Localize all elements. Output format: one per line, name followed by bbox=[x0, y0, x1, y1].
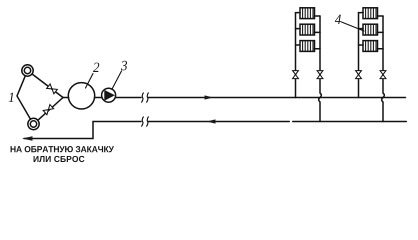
node J wire into degasser bbox=[63, 97, 69, 99]
wellhead W2 (bottom double circle) bbox=[28, 118, 39, 129]
pump P3 bbox=[102, 88, 116, 102]
leader line label 4 bbox=[342, 22, 365, 31]
return pipe main run bbox=[148, 121, 406, 123]
radiator A2 bbox=[296, 24, 321, 35]
return pipe segment left bbox=[93, 121, 141, 123]
valve V2 (on lower diagonal) bbox=[43, 105, 53, 115]
radiator A1 bbox=[296, 8, 321, 19]
arrow to injection (left) bbox=[22, 136, 33, 140]
label 3 bbox=[121, 61, 127, 71]
label 4 bbox=[335, 15, 341, 24]
pipe break marks supply bbox=[142, 93, 149, 102]
radiator group B left riser bbox=[358, 13, 360, 98]
leader line label 3 bbox=[112, 71, 122, 90]
leader line label 1 bbox=[17, 76, 31, 119]
leader line label 2 bbox=[86, 74, 94, 89]
return drop pipe to injection bbox=[24, 122, 93, 139]
wire degasser to pump bbox=[95, 97, 103, 99]
valve VB1 (left riser B) bbox=[356, 71, 362, 79]
radiator group A right riser with crossing jog bbox=[319, 16, 322, 122]
flow arrow supply (right) bbox=[205, 95, 214, 99]
valve VA1 (left riser A) bbox=[293, 71, 299, 79]
wire from W1 to node J bbox=[32, 74, 63, 98]
radiator B2 bbox=[359, 24, 384, 35]
wellhead W1 (top double circle) bbox=[22, 65, 33, 76]
valve V1 (on upper diagonal) bbox=[47, 84, 58, 94]
supply pipe segment pump to break bbox=[115, 97, 141, 99]
valve VB2 (right riser B) bbox=[380, 71, 386, 79]
radiator B3 bbox=[359, 41, 384, 52]
radiator A3 bbox=[296, 41, 321, 52]
pipe break marks return bbox=[142, 117, 149, 126]
label 2 bbox=[93, 63, 99, 72]
radiator group A left riser bbox=[295, 13, 297, 98]
valve VA2 (right riser A) bbox=[317, 71, 323, 79]
radiator B1 bbox=[359, 8, 384, 19]
supply pipe main run bbox=[148, 97, 405, 99]
degasser U2 (big circle) bbox=[68, 83, 94, 109]
flow arrow return (left) bbox=[207, 119, 216, 123]
radiator group B right riser with crossing jog bbox=[382, 16, 385, 122]
label 1 bbox=[9, 93, 14, 102]
caption line 1 bbox=[11, 146, 114, 152]
wire from W2 to node J bbox=[38, 98, 63, 121]
caption line 2 bbox=[34, 156, 85, 162]
